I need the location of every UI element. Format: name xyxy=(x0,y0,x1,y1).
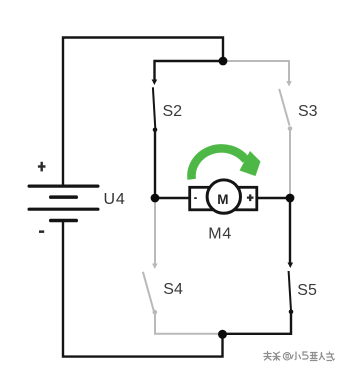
svg-text:S3: S3 xyxy=(298,103,318,120)
svg-text:M: M xyxy=(217,192,228,207)
svg-text:S2: S2 xyxy=(163,103,183,120)
svg-text:S5: S5 xyxy=(297,282,317,299)
svg-text:U4: U4 xyxy=(104,191,126,208)
svg-text:S4: S4 xyxy=(163,281,183,298)
svg-text:M4: M4 xyxy=(208,226,232,243)
